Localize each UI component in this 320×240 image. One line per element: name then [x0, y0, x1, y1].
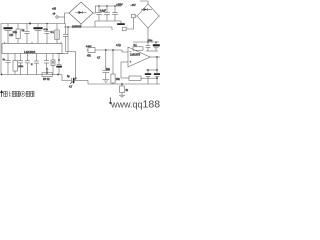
svg-text:4.7: 4.7: [97, 58, 101, 60]
capacitor C4 small top row: [44, 24, 54, 44]
node output: [156, 56, 158, 58]
svg-text:0.1μF: 0.1μF: [100, 10, 107, 12]
wire second rail: [64, 26, 112, 28]
node dots on amp rail: [147, 41, 149, 43]
wire bridge2 bottom down to amp rail: [147, 28, 149, 42]
terminal square AC1: [132, 14, 138, 18]
terminal 9V circle: [52, 9, 65, 19]
svg-text:1k: 1k: [126, 90, 129, 92]
wire output branch: [146, 69, 157, 71]
node feedback tap: [156, 77, 158, 79]
resistor R3 below IC tall: [13, 54, 24, 75]
resistor R1 top row: [9, 24, 20, 44]
resistor R7 feedback: [121, 76, 157, 80]
wire IC output stub: [57, 53, 68, 55]
svg-text:10μ: 10μ: [13, 30, 18, 34]
svg-text:+18: +18: [52, 9, 57, 11]
capacitor C15 output electrolytic: [145, 70, 151, 84]
capacitor C21 right of top row: [63, 24, 68, 52]
wire output down: [156, 57, 158, 70]
capacitor C13 amp rail: [153, 42, 160, 51]
capacitor C14 mid vertical: [97, 50, 111, 82]
wire plus25 rail: [95, 5, 121, 7]
capacitor C19 below IC: [31, 54, 39, 75]
wire op-amp output: [150, 56, 160, 58]
bridge rectifier D1 diamond: [69, 2, 93, 28]
bridge rectifier D2 diamond top right: [137, 4, 159, 28]
wire mid vertical to rail2: [67, 27, 69, 54]
wire signal to op-amp input: [122, 50, 128, 52]
svg-text:~9V: ~9V: [131, 3, 136, 7]
node dots on plus rail: [98, 5, 100, 7]
watermark tick: [109, 98, 111, 105]
svg-text:4.7μ: 4.7μ: [116, 44, 121, 47]
capacitor C5 below IC: [3, 54, 11, 75]
svg-text:1N5408: 1N5408: [72, 24, 82, 28]
svg-text:47k: 47k: [9, 34, 14, 37]
potentiometer RP inline on bottom rail: [42, 68, 53, 81]
capacitor C3 electrolytic top row: [33, 24, 48, 44]
node junction on top rail 2: [46, 23, 48, 25]
wire bridge1 bottom vertex down: [80, 24, 82, 27]
svg-text:1μ: 1μ: [22, 29, 25, 32]
svg-text:RP 1k: RP 1k: [43, 78, 50, 81]
op-amp U2 LM1875 triangle: [128, 47, 150, 67]
capacitor C10 filter: [100, 6, 110, 21]
resistor R9 below IC small: [51, 54, 55, 75]
capacitor C1 electrolytic top-left: [3, 24, 17, 44]
wire bridge2 top vertex: [140, 1, 148, 4]
wire mid vertical to bottom: [66, 52, 76, 81]
ground symbol filter: [117, 21, 125, 25]
svg-text:E: E: [31, 64, 33, 66]
capacitor C8 electrolytic below IC right: [56, 54, 62, 75]
capacitor C6 below IC: [18, 54, 23, 75]
capacitor C20 below IC: [44, 54, 49, 75]
svg-text:10μ: 10μ: [106, 69, 111, 71]
svg-text:LM1875: LM1875: [130, 53, 141, 57]
svg-text:4.7μ: 4.7μ: [44, 29, 49, 31]
svg-text:220μ: 220μ: [148, 40, 154, 42]
wire op-amp lower input: [121, 61, 128, 63]
capacitor C12 amp rail: [146, 42, 151, 51]
svg-text:+25V: +25V: [116, 3, 123, 7]
wire feedback vertical: [120, 62, 122, 78]
resistor R8 below rail: [119, 84, 129, 98]
node on rail2: [67, 26, 69, 28]
wire amp rail lower: [146, 50, 158, 52]
wire bridge1 left vertex to rail: [65, 13, 70, 24]
wire bottom rail left: [1, 74, 62, 76]
svg-text:150k: 150k: [18, 66, 24, 68]
wire bottom rail step: [62, 75, 71, 81]
capacitor C2 small top row: [22, 24, 30, 44]
capacitor C9 filter: [96, 6, 102, 21]
wire ground rail filter: [95, 20, 118, 22]
wire step down to right rail: [87, 81, 89, 85]
caption arrow: [1, 91, 3, 97]
wire filter rail down to rail2: [94, 21, 96, 27]
wire amp supply rail: [133, 41, 159, 43]
node dots signal line: [105, 49, 107, 51]
resistor R6 mid vertical: [111, 50, 121, 84]
svg-text:1μ: 1μ: [67, 76, 70, 78]
IC pin stubs top: [5, 42, 62, 44]
capacitor C18 series electrolytic on bottom wire: [67, 76, 88, 89]
capacitor C7 below IC: [25, 54, 30, 75]
capacitor C11 filter: [112, 6, 118, 21]
resistor R5 signal: [86, 46, 122, 58]
op-amp U1 LM1894 IC body: [2, 44, 62, 54]
node dots output branch: [147, 69, 149, 71]
wire bridge2 right vertex stub: [159, 15, 160, 17]
node bottom-left: [1, 74, 3, 76]
resistor R2 top row right: [55, 24, 59, 44]
terminal square AC2: [123, 18, 134, 31]
capacitor C16 output electrolytic: [154, 70, 160, 84]
node junction on top rail: [29, 23, 31, 25]
resistor R4 on amp rail: [133, 45, 143, 50]
node junction bottom rail right: [57, 74, 59, 76]
svg-text:0.047: 0.047: [86, 46, 92, 48]
svg-text:1μ: 1μ: [3, 59, 6, 61]
svg-text:0.1: 0.1: [51, 31, 55, 34]
caption glyphs: [4, 91, 34, 96]
node on right rail: [121, 83, 123, 85]
wire left edge vertical: [0, 24, 2, 75]
node stub mid rail: [111, 27, 113, 30]
svg-text:www.qq1888: www.qq1888: [110, 99, 160, 111]
wire bottom rail right: [88, 83, 160, 85]
svg-text:LM1894: LM1894: [24, 50, 35, 54]
svg-text:+9: +9: [53, 14, 56, 16]
wire top rail left section: [1, 23, 66, 25]
svg-text:10k: 10k: [116, 78, 121, 81]
wire bridge1 right vertex to plus rail: [93, 6, 96, 13]
svg-text:4.7: 4.7: [69, 87, 73, 89]
svg-text:47k: 47k: [87, 56, 92, 58]
